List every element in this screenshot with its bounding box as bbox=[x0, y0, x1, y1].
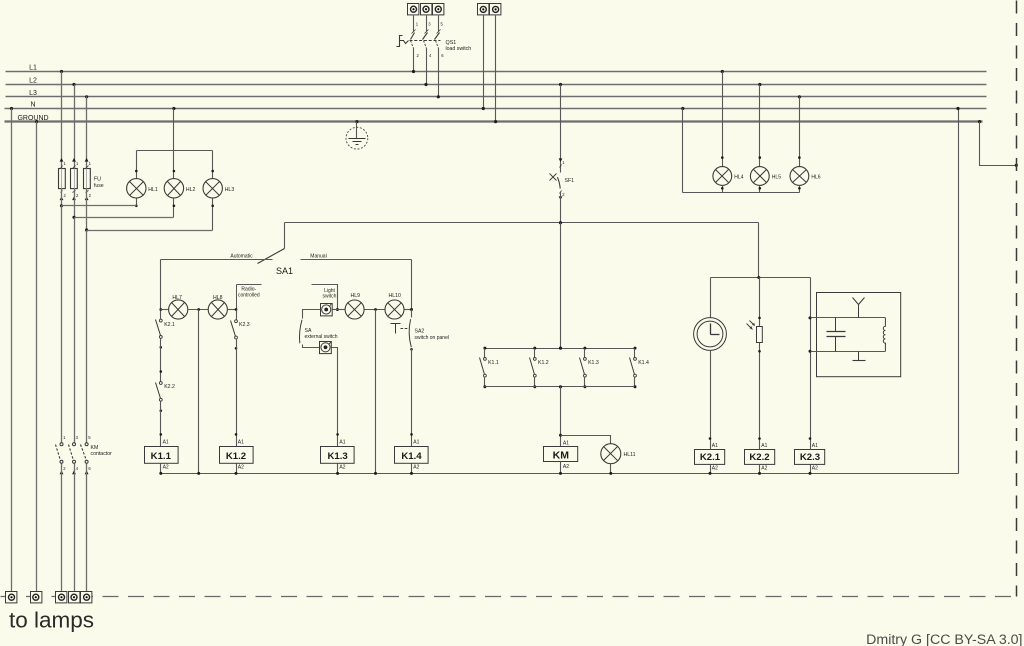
pin dot photoresistor top bbox=[758, 317, 761, 320]
capacitor C1 bbox=[827, 318, 846, 352]
junction fuse 1 tap bbox=[60, 70, 63, 73]
switch SA1 blade bbox=[258, 249, 285, 264]
wire HL8 to K2.3 branch bbox=[228, 309, 237, 311]
terminal X7 bbox=[31, 592, 42, 603]
svg-text:HL7: HL7 bbox=[172, 295, 182, 301]
junction GROUND right tap bbox=[978, 120, 981, 123]
junction arrow KM pole 1 bbox=[60, 470, 64, 474]
wire HL3 bottom stub bbox=[212, 199, 214, 231]
contactor KM pole 3 bbox=[81, 443, 89, 464]
wire fuse 3 to corner bbox=[86, 189, 88, 231]
wire HL2 top stub bbox=[173, 151, 175, 179]
wire fuse 1 to corner bbox=[61, 189, 63, 206]
QS1 handle bbox=[397, 36, 403, 47]
junction return bus x375.5 bbox=[374, 472, 377, 475]
svg-text:K2.3: K2.3 bbox=[800, 452, 820, 463]
wire SA1 riser bbox=[284, 223, 286, 249]
svg-text:fuse: fuse bbox=[94, 183, 104, 189]
contact K1.4 bbox=[630, 358, 637, 378]
wire HL9 to HL10 bbox=[365, 309, 385, 311]
wire fuse1 to HL1 bbox=[62, 205, 137, 207]
wire HL4-6 return rail bbox=[683, 192, 800, 194]
junction bottom rail 3 bbox=[583, 385, 586, 388]
relay coil K1.4 bbox=[395, 440, 429, 471]
svg-text:SA1: SA1 bbox=[276, 266, 293, 276]
arrow above fuse 3 bbox=[85, 158, 89, 162]
arrow below fuse 1 bbox=[60, 196, 64, 200]
svg-text:HL5: HL5 bbox=[772, 174, 781, 180]
junction HL11 branch bbox=[559, 434, 562, 437]
wire K2.2 A2 bbox=[759, 465, 761, 474]
junction HL9-HL10 return tap bbox=[374, 308, 377, 311]
enclosure border right bbox=[1016, 1, 1018, 597]
svg-text:L3: L3 bbox=[29, 90, 37, 97]
pin dot below HL1 bbox=[135, 205, 138, 208]
wire sensor rail bbox=[711, 277, 811, 279]
junction HL5 tap bbox=[758, 83, 761, 86]
wire bus GROUND bbox=[5, 120, 983, 122]
wire photoresistor drop bbox=[759, 277, 760, 279]
svg-text:HL3: HL3 bbox=[225, 187, 235, 193]
terminal X8 bbox=[56, 592, 67, 603]
wire QS1 pole 3 upper bbox=[438, 15, 440, 32]
pin dot below SA2 bbox=[410, 348, 413, 351]
pin dot photoresistor bottom bbox=[758, 350, 761, 353]
svg-text:K1.1: K1.1 bbox=[151, 451, 172, 462]
terminal X2 bbox=[421, 4, 432, 15]
junction X4-N bbox=[482, 107, 485, 110]
lamp HL9 bbox=[345, 300, 364, 319]
lamp HL4 bbox=[713, 167, 732, 186]
junction fuse 3 output bbox=[85, 228, 88, 231]
fuse FU3 bbox=[84, 169, 91, 189]
lamp HL11 bbox=[601, 444, 621, 464]
junction return bus x160.8 bbox=[159, 472, 162, 475]
wire terminal X5 to GROUND bbox=[495, 16, 497, 122]
wire HL10 to SA2 bbox=[411, 310, 413, 318]
wire phase to HL6 bbox=[799, 97, 801, 167]
junction HL4 tap bbox=[721, 70, 724, 73]
inductor L1 bbox=[883, 318, 885, 351]
pin dot above HL1 bbox=[135, 170, 138, 173]
lamp HL6 bbox=[790, 167, 809, 186]
pin dot K2.2 A1 bbox=[758, 437, 761, 440]
wire N to lamp rail bbox=[173, 109, 175, 151]
wire manual drop bbox=[411, 260, 413, 310]
wire bus L3 bbox=[6, 96, 987, 98]
pin dot below HL5 bbox=[759, 187, 762, 190]
svg-text:HL8: HL8 bbox=[213, 295, 223, 301]
wire K2.2 to K1.1 coil bbox=[160, 402, 162, 447]
wire phase drop to fuse 2 bbox=[74, 85, 76, 170]
svg-text:K2.2: K2.2 bbox=[749, 452, 769, 463]
wire HL5 bottom stub bbox=[759, 186, 761, 193]
junction QS1 pole 1 bbox=[412, 70, 415, 73]
wire K1.4 A2 bbox=[411, 464, 413, 474]
junction bottom rail 1 bbox=[483, 385, 486, 388]
svg-text:A2: A2 bbox=[238, 464, 244, 470]
wire L2 to SF1 bbox=[560, 85, 562, 173]
wire HL1 bottom stub bbox=[136, 199, 138, 206]
wire terminal X4 to N bbox=[483, 16, 485, 109]
junction manual-HL10 bbox=[410, 308, 413, 311]
wire HL11 branch bbox=[561, 436, 611, 444]
svg-text:HL4: HL4 bbox=[734, 174, 743, 180]
switch box SA3 (light switch) bbox=[321, 304, 333, 316]
svg-text:A1: A1 bbox=[238, 440, 244, 446]
wire QS1 pole 1 lower bbox=[413, 49, 415, 72]
svg-text:KM: KM bbox=[553, 450, 570, 462]
wire light-switch leader bbox=[312, 285, 338, 310]
terminal X4 bbox=[478, 4, 489, 15]
QS1 mechanical link bbox=[410, 40, 441, 42]
svg-text:controlled: controlled bbox=[238, 292, 260, 298]
wire HL4 bottom stub bbox=[722, 186, 724, 193]
junction return bus x337.6 bbox=[336, 472, 339, 475]
svg-text:K1.3: K1.3 bbox=[327, 451, 347, 462]
svg-text:K1.3: K1.3 bbox=[588, 360, 599, 366]
wire HL2 bottom stub bbox=[173, 199, 175, 218]
wire phase drop to fuse 1 bbox=[61, 72, 63, 170]
junction feed-top rail bbox=[559, 347, 562, 350]
wire HL9 stub bbox=[338, 309, 346, 311]
junction fuse 1 output bbox=[60, 204, 63, 207]
svg-text:load switch: load switch bbox=[446, 46, 472, 52]
wire photoresistor to K2.2 coil bbox=[759, 343, 761, 450]
pin dot above HL3 bbox=[211, 170, 214, 173]
svg-text:A2: A2 bbox=[339, 464, 345, 470]
svg-text:switch on panel: switch on panel bbox=[415, 335, 449, 341]
junction return bus x411.5 bbox=[410, 472, 413, 475]
svg-text:HL10: HL10 bbox=[388, 293, 401, 299]
wire K2.1 to K2.2 bbox=[160, 339, 162, 382]
antenna W1 bbox=[853, 298, 865, 318]
wire QS1 pole 3 lower bbox=[438, 49, 440, 97]
wire clock drop bbox=[710, 278, 712, 318]
svg-text:A2: A2 bbox=[761, 466, 767, 472]
pin dot above HL4 bbox=[721, 156, 724, 159]
svg-text:HL11: HL11 bbox=[624, 452, 636, 458]
contact K1.2 bbox=[530, 358, 537, 378]
pin dot below HL6 bbox=[798, 187, 801, 190]
junction radio bottom bbox=[809, 350, 812, 353]
pin dot K1.4 A1 bbox=[410, 433, 413, 436]
fuse FU2 bbox=[71, 169, 78, 189]
wire block to KM coil bbox=[560, 387, 562, 447]
radio receiver box bbox=[817, 293, 901, 377]
wire phase to HL4 bbox=[722, 72, 724, 167]
enclosure border bottom bbox=[1, 596, 1017, 598]
pin dot below HL3 bbox=[211, 205, 214, 208]
svg-text:A2: A2 bbox=[812, 466, 818, 472]
contactor coil KM bbox=[544, 440, 578, 470]
wire feed to contact block bbox=[560, 223, 562, 349]
terminal X1 bbox=[408, 4, 419, 15]
junction QS1 pole 3 bbox=[437, 95, 440, 98]
wire fuse3 to HL3 bbox=[87, 230, 213, 232]
svg-text:K1.4: K1.4 bbox=[401, 451, 422, 462]
terminal X6 bbox=[6, 592, 17, 603]
junction GROUND exit end bbox=[1015, 164, 1018, 167]
svg-text:Dmitry G [CC BY-SA 3.0]: Dmitry G [CC BY-SA 3.0] bbox=[866, 632, 1022, 646]
relay coil K2.1 bbox=[695, 443, 725, 472]
wire HL7 stub bbox=[161, 309, 169, 311]
QS1 pole 1 blade bbox=[411, 30, 416, 49]
timer clock KT bbox=[694, 318, 727, 351]
wire N drop HL4-6 bbox=[682, 109, 684, 193]
wire K1.2 A2 bbox=[236, 464, 238, 474]
relay coil K1.3 bbox=[321, 440, 355, 471]
arrow below fuse 3 bbox=[85, 196, 89, 200]
junction earth tap on GROUND bbox=[355, 120, 358, 123]
relay coil K2.3 bbox=[795, 443, 825, 472]
svg-text:N: N bbox=[30, 102, 35, 109]
wire KM pole 2 to terminal bbox=[74, 464, 76, 592]
wire lamp return drop bbox=[198, 310, 200, 474]
svg-text:K2.1: K2.1 bbox=[700, 452, 721, 463]
radio ground bbox=[853, 352, 866, 361]
wire box2 to K1.3 coil bbox=[332, 348, 338, 447]
wire QS1 pole 1 upper bbox=[413, 15, 415, 32]
wire SA2 to K1.4 coil bbox=[411, 349, 413, 447]
relay coil K1.1 bbox=[145, 440, 179, 471]
junction HL8 branch bbox=[235, 308, 238, 311]
contactor KM pole 1 bbox=[56, 443, 64, 464]
arrow above fuse 2 bbox=[72, 158, 76, 162]
junction top rail 2 bbox=[533, 347, 536, 350]
wire feed drop right bbox=[758, 223, 760, 278]
contact K1.1 bbox=[480, 358, 487, 378]
junction return bus x236 bbox=[235, 472, 238, 475]
svg-text:HL9: HL9 bbox=[351, 293, 361, 299]
svg-text:HL1: HL1 bbox=[148, 187, 158, 193]
wire HL3 top stub bbox=[212, 151, 214, 179]
wire N drop to terminal 1 bbox=[11, 109, 13, 592]
pin dot above HL2 bbox=[173, 170, 176, 173]
svg-text:HL2: HL2 bbox=[186, 187, 196, 193]
wire HL1 top stub bbox=[136, 151, 138, 179]
pin dot below HL4 bbox=[721, 187, 724, 190]
junction return bus x759.5 bbox=[758, 472, 761, 475]
wire contact K1.3 bottom pin bbox=[584, 377, 586, 387]
pin dot K1.1 A1 bbox=[160, 433, 163, 436]
svg-text:A1: A1 bbox=[712, 443, 718, 449]
junction bottom rail 4 bbox=[634, 385, 637, 388]
wire bus N bbox=[5, 108, 987, 110]
lamp HL10 bbox=[385, 300, 404, 319]
junction fuse 2 tap bbox=[72, 83, 75, 86]
wire contact K1.1 bottom pin bbox=[484, 377, 486, 387]
svg-text:K1.4: K1.4 bbox=[638, 360, 649, 366]
junction lamp return tap bbox=[197, 308, 200, 311]
svg-text:L1: L1 bbox=[29, 65, 37, 72]
junction bottom rail 2 bbox=[533, 385, 536, 388]
arrow SF1 top bbox=[559, 158, 563, 162]
svg-text:HL6: HL6 bbox=[811, 174, 820, 180]
svg-text:to lamps: to lamps bbox=[9, 608, 94, 633]
junction fuse 3 tap bbox=[85, 95, 88, 98]
terminal X3 bbox=[433, 4, 444, 15]
svg-text:A1: A1 bbox=[413, 440, 419, 446]
pin dot K2.3 A1 bbox=[809, 437, 812, 440]
wire K2.3 A2 bbox=[810, 465, 812, 474]
junction return bus x810 bbox=[809, 472, 812, 475]
junction top rail 4 bbox=[634, 347, 637, 350]
QS1 pole 2 blade bbox=[423, 30, 429, 49]
svg-text:K2.1: K2.1 bbox=[164, 322, 175, 328]
wire SA1 automatic line bbox=[161, 259, 273, 261]
lamp HL5 bbox=[750, 167, 769, 186]
wire HL6 bottom stub bbox=[799, 186, 801, 193]
arrow above fuse 1 bbox=[60, 158, 64, 162]
wire fuse 1 down to KM contact bbox=[61, 206, 63, 443]
wire HL7 to HL8 bbox=[188, 309, 209, 311]
wire GROUND exit bbox=[980, 122, 1017, 166]
svg-text:external switch: external switch bbox=[305, 334, 338, 340]
pin dot above HL5 bbox=[759, 156, 762, 159]
wire fuse 2 down to KM contact bbox=[74, 218, 76, 443]
wire QS1 pole 2 lower bbox=[426, 49, 428, 85]
terminal X9 bbox=[69, 592, 80, 603]
wire K1.3 A2 bbox=[337, 464, 339, 474]
svg-text:K1.2: K1.2 bbox=[226, 451, 246, 462]
junction return bus x198.7 bbox=[197, 472, 200, 475]
wire clock to K2.1 coil bbox=[710, 351, 712, 450]
svg-text:L2: L2 bbox=[29, 78, 37, 85]
junction arrow KM pole 2 bbox=[72, 470, 76, 474]
svg-text:K2.3: K2.3 bbox=[239, 322, 250, 328]
svg-text:contactor: contactor bbox=[91, 451, 113, 457]
wire SA to box2 bbox=[303, 345, 320, 348]
svg-text:A1: A1 bbox=[163, 440, 169, 446]
pin dot K2.1 A1 bbox=[709, 437, 712, 440]
QS1 pole 3 blade bbox=[435, 30, 441, 49]
wire HL9-HL10 return drop bbox=[375, 310, 377, 474]
svg-text:K2.2: K2.2 bbox=[164, 384, 175, 390]
svg-text:SF1: SF1 bbox=[565, 178, 575, 184]
wire GROUND drop to terminal 2 bbox=[36, 122, 38, 592]
junction QS1 pole 2 bbox=[424, 83, 427, 86]
junction top rail 3 bbox=[583, 347, 586, 350]
contact K1.3 bbox=[580, 358, 587, 378]
photoresistor R1 bbox=[747, 321, 763, 343]
wire K2.1 feed bbox=[160, 311, 162, 320]
svg-text:K1.1: K1.1 bbox=[488, 360, 499, 366]
wire contact K1.2 bottom pin bbox=[534, 377, 536, 387]
svg-text:SA2: SA2 bbox=[415, 329, 425, 335]
terminal X5 bbox=[490, 4, 501, 15]
junction bottom rail centre bbox=[559, 385, 562, 388]
switch box SA4 (light switch) bbox=[320, 342, 332, 354]
svg-text:switch: switch bbox=[323, 294, 337, 300]
pin dot K1.2 A1 bbox=[235, 433, 238, 436]
arrow SF1 bottom bbox=[559, 196, 563, 200]
junction return bus x560.5 bbox=[559, 472, 562, 475]
wire automatic drop bbox=[160, 260, 162, 310]
contact K2.3 bbox=[231, 320, 238, 339]
junction SF1 tap on L2 bbox=[559, 83, 562, 86]
junction sensor rail bbox=[757, 276, 760, 279]
junction SF1 feed bbox=[559, 221, 562, 224]
fuse FU1 bbox=[59, 169, 66, 189]
wire HL11 to bus bbox=[610, 464, 612, 474]
junction arrow KM pole 3 bbox=[85, 470, 89, 474]
wire K2.1 A2 bbox=[710, 465, 712, 474]
svg-text:FU: FU bbox=[94, 177, 101, 183]
wire SA1 manual line bbox=[301, 259, 412, 261]
wire K1.1 A2 bbox=[160, 464, 162, 474]
svg-text:A1: A1 bbox=[563, 440, 569, 446]
pin dot below K2.2 bbox=[160, 409, 163, 412]
svg-text:A2: A2 bbox=[712, 466, 718, 472]
switch SA2 blade bbox=[391, 319, 412, 347]
wire KM pole 1 to terminal bbox=[61, 464, 63, 592]
svg-text:A1: A1 bbox=[812, 443, 818, 449]
lamp HL1 bbox=[127, 179, 146, 198]
wire HL8 branch down bbox=[236, 310, 238, 320]
wire K2.3 leader drop bbox=[236, 285, 238, 310]
svg-text:A2: A2 bbox=[163, 464, 169, 470]
svg-text:K1.2: K1.2 bbox=[538, 360, 549, 366]
wire radio drop bbox=[810, 278, 812, 450]
relay coil K2.2 bbox=[745, 443, 775, 472]
junction GROUND left tap bbox=[35, 120, 38, 123]
junction N tap for HL2 bbox=[172, 107, 175, 110]
wire radio bottom rail bbox=[811, 351, 886, 353]
svg-text:KM: KM bbox=[91, 445, 99, 451]
relay coil K1.2 bbox=[220, 440, 254, 471]
junction HL7 feed bbox=[159, 308, 162, 311]
wire phase to HL5 bbox=[759, 85, 761, 167]
lamp HL3 bbox=[203, 179, 222, 198]
wire HL10 right bbox=[405, 309, 412, 311]
wire fuse 2 to corner bbox=[74, 189, 76, 218]
switch SA blade bbox=[299, 320, 302, 344]
wire HL1-HL3 top rail bbox=[137, 150, 213, 152]
svg-text:A2: A2 bbox=[413, 464, 419, 470]
junction X5-GROUND bbox=[494, 120, 497, 123]
junction return bus x610.8 bbox=[609, 472, 612, 475]
wire bus L2 bbox=[6, 84, 987, 86]
lamp HL2 bbox=[164, 179, 183, 198]
lamp HL7 bbox=[169, 300, 188, 319]
pin dot below K2.3 bbox=[235, 347, 238, 350]
pin dot above HL6 bbox=[798, 156, 801, 159]
wire contact K1.4 bottom pin bbox=[634, 377, 636, 387]
wire radio top rail bbox=[811, 317, 886, 319]
wire box1 right bbox=[333, 309, 338, 311]
wire K2.3 to K1.2 coil bbox=[236, 339, 238, 447]
svg-text:Automatic: Automatic bbox=[230, 253, 253, 259]
lamp HL8 bbox=[208, 300, 227, 319]
contact K2.2 bbox=[156, 382, 163, 402]
junction return-N bbox=[956, 107, 959, 110]
pin dot below K2.1 bbox=[160, 346, 163, 349]
junction fuse 2 output bbox=[72, 216, 75, 219]
junction radio top bbox=[809, 316, 812, 319]
wire contact K1.2 top pin bbox=[534, 349, 536, 358]
wire SF1 to feed bus bbox=[560, 193, 562, 223]
svg-text:A1: A1 bbox=[761, 443, 767, 449]
junction N left tap bbox=[10, 107, 13, 110]
svg-text:A2: A2 bbox=[563, 464, 569, 470]
arrow below fuse 2 bbox=[72, 196, 76, 200]
pin dot above K2.2 bbox=[160, 370, 163, 373]
wire contact K1.1 top pin bbox=[484, 349, 486, 358]
svg-text:Manual: Manual bbox=[310, 253, 326, 259]
wire KM A2 bbox=[560, 462, 562, 474]
wire fuse 3 down to KM contact bbox=[86, 231, 88, 443]
